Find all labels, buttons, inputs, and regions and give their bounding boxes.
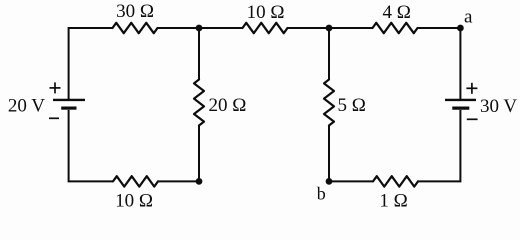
battery V1 20V long plate — [53, 99, 85, 101]
wire bottom-left to node — [158, 180, 199, 182]
svg-text:b: b — [317, 184, 326, 204]
wire top between 30ohm and node — [158, 27, 200, 29]
minus sign of V1 — [49, 117, 59, 119]
svg-text:1 Ω: 1 Ω — [379, 191, 407, 212]
svg-text:4 Ω: 4 Ω — [383, 2, 411, 23]
plus sign of V1 — [50, 82, 61, 93]
svg-text:10 Ω: 10 Ω — [247, 2, 285, 23]
resistor R 5ohm zigzag — [324, 80, 334, 126]
svg-text:20 V: 20 V — [8, 96, 45, 117]
resistor R 10ohm top zigzag — [243, 23, 288, 33]
svg-text:a: a — [464, 7, 473, 28]
node junction bottom-left (20ohm bottom) — [196, 178, 203, 185]
wire bottom-right from node b — [329, 180, 373, 182]
svg-text:5 Ω: 5 Ω — [338, 95, 366, 116]
minus sign of V2 — [467, 118, 478, 120]
node junction top-left (20ohm top) — [196, 25, 203, 32]
wire top between 10ohm and node — [288, 27, 330, 29]
resistor R 20ohm zigzag — [194, 80, 204, 126]
battery V2 30V long plate — [445, 99, 476, 101]
resistor R 10ohm bottom zigzag — [113, 176, 158, 186]
wire top between node and 10ohm — [199, 27, 243, 29]
plus sign of V2 — [466, 83, 477, 94]
svg-text:10 Ω: 10 Ω — [115, 191, 153, 212]
svg-text:20 Ω: 20 Ω — [209, 95, 247, 116]
svg-text:30 Ω: 30 Ω — [116, 1, 154, 22]
node junction top-right (5ohm top) — [326, 25, 333, 32]
resistor R 30ohm zigzag — [113, 23, 158, 33]
node b dot — [326, 178, 333, 185]
battery V2 30V short plate — [452, 106, 469, 109]
wire top-left corner — [69, 28, 113, 99]
wire top between node and 4ohm — [329, 27, 373, 29]
wire 20ohm branch lower — [198, 126, 200, 182]
battery V1 20V short plate — [61, 106, 76, 109]
wire 5ohm branch upper — [328, 28, 330, 80]
node a dot — [457, 25, 464, 32]
wire 5ohm branch lower to node b — [328, 126, 330, 182]
wire bottom-left corner — [69, 110, 113, 181]
wire 20ohm branch upper — [198, 28, 200, 80]
svg-text:30 V: 30 V — [480, 96, 517, 117]
resistor R 1ohm zigzag — [373, 176, 418, 186]
resistor R 4ohm zigzag — [373, 23, 418, 33]
wire bottom-right corner — [418, 110, 460, 181]
wire top-right corner to node a — [418, 28, 461, 99]
